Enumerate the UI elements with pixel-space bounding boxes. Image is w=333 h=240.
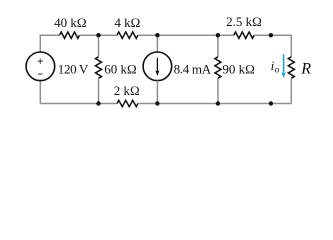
current source stub top	[156, 35, 158, 52]
node dot top A	[96, 33, 100, 37]
current io arrow (blue)	[283, 54, 285, 73]
resistor 2.5k zigzag	[234, 32, 254, 38]
resistor 60k zigzag	[96, 57, 102, 79]
node dot top B	[155, 33, 159, 37]
svg-text:R: R	[300, 60, 311, 77]
svg-text:90 kΩ: 90 kΩ	[222, 61, 254, 76]
wire bottom right	[138, 103, 291, 105]
node dot bottom D	[269, 101, 273, 105]
wire top 4k to 2.5k	[138, 34, 234, 36]
wire branch 60k top	[98, 35, 100, 57]
node dot top D	[269, 33, 273, 37]
resistor R zigzag right branch	[288, 57, 294, 79]
wire right branch bottom	[290, 78, 292, 103]
svg-text:60 kΩ: 60 kΩ	[104, 61, 136, 76]
wire branch 60k bottom	[98, 78, 100, 103]
svg-text:120 V: 120 V	[58, 62, 89, 77]
wire bottom left	[40, 103, 117, 105]
svg-text:4 kΩ: 4 kΩ	[114, 15, 140, 30]
resistor 2k zigzag	[117, 100, 138, 106]
wire branch 90k bottom	[217, 78, 219, 103]
plus sign	[38, 59, 43, 64]
svg-text:8.4 mA: 8.4 mA	[174, 61, 212, 76]
voltage source V1 stub top	[39, 81, 41, 104]
voltage source V1 circle	[26, 52, 55, 81]
svg-text:2 kΩ: 2 kΩ	[114, 83, 140, 98]
node dot bottom C	[216, 101, 220, 105]
resistor 90k zigzag	[215, 57, 221, 79]
current source arrow	[156, 58, 158, 72]
node dot top C	[216, 33, 220, 37]
current source stub bottom	[156, 81, 158, 104]
wire top 40k to 4k	[80, 34, 118, 36]
current source circle	[143, 52, 172, 81]
node dot bottom A	[96, 101, 100, 105]
wire top 2.5k to right corner	[254, 35, 291, 57]
resistor 4k zigzag	[117, 32, 138, 38]
svg-text:io: io	[271, 58, 280, 76]
wire branch 90k top	[217, 35, 219, 57]
wire top segment left corner to 40k	[40, 35, 59, 52]
svg-text:40 kΩ: 40 kΩ	[54, 15, 86, 30]
resistor R 40k zigzag	[60, 32, 80, 38]
svg-text:2.5 kΩ: 2.5 kΩ	[226, 14, 262, 29]
minus sign	[38, 73, 43, 75]
node dot bottom B	[155, 101, 159, 105]
